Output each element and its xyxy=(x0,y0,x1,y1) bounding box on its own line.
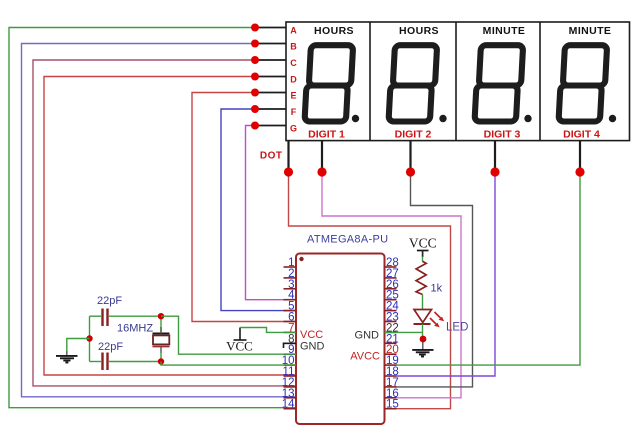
node B junction xyxy=(251,40,259,48)
svg-text:LED: LED xyxy=(446,322,468,334)
node DIG2 junction xyxy=(406,167,415,176)
display DS3 DIGIT 3 xyxy=(475,25,532,141)
wire net DIG1 (pink) to pin 16 xyxy=(322,141,461,398)
U1 right pin numbers xyxy=(386,257,399,411)
svg-text:14: 14 xyxy=(282,399,295,411)
node F junction xyxy=(251,105,259,113)
power VCC symbol near pin 7 xyxy=(234,328,247,341)
wire net F (blue) to pin 5 xyxy=(221,109,296,311)
svg-text:HOURS: HOURS xyxy=(399,25,439,37)
svg-text:MINUTE: MINUTE xyxy=(569,25,612,37)
svg-text:C: C xyxy=(290,58,297,68)
svg-text:ATMEGA8A-PU: ATMEGA8A-PU xyxy=(307,234,388,246)
U1 left pin stubs 1-14 xyxy=(284,267,297,409)
node crystal bottom junction xyxy=(158,358,164,364)
wire crystal top to pin 9 (green) xyxy=(161,316,296,354)
node E junction xyxy=(251,89,259,97)
svg-text:G: G xyxy=(290,124,297,134)
svg-text:E: E xyxy=(290,91,296,101)
LED D1 xyxy=(414,310,432,325)
svg-text:DIGIT 4: DIGIT 4 xyxy=(563,129,600,141)
node DIG1 junction xyxy=(317,167,326,176)
svg-text:HOURS: HOURS xyxy=(314,25,354,37)
wire net DIG4 (green) to pin 19 xyxy=(397,141,581,366)
svg-text:15: 15 xyxy=(386,399,399,411)
wire pin 22 to LED ground (green) xyxy=(385,331,423,333)
power VCC above resistor xyxy=(409,235,437,250)
capacitor C2 22pF (bottom) xyxy=(90,341,162,370)
node cap bus junction xyxy=(86,335,92,341)
svg-text:22pF: 22pF xyxy=(98,341,123,353)
svg-text:GND: GND xyxy=(355,329,380,341)
wire net E (red) to pin 6 xyxy=(192,93,296,322)
wire net B (violet) to pin 13 xyxy=(22,44,297,397)
segment labels A-G xyxy=(290,26,297,134)
wire net DIG3 (violet) to pin 18 xyxy=(397,141,496,376)
svg-text:B: B xyxy=(290,42,297,52)
wire net G (magenta) to pin 4 xyxy=(246,126,297,300)
node D junction xyxy=(251,73,259,81)
display DS2 DIGIT 2 xyxy=(389,25,447,141)
svg-text:D: D xyxy=(290,75,297,85)
wire caps left bus (green) xyxy=(89,316,91,361)
svg-text:VCC: VCC xyxy=(226,339,253,354)
svg-text:VCC: VCC xyxy=(300,329,323,341)
U1 left pin numbers xyxy=(282,257,295,411)
wire net D (red) to pin 11 xyxy=(44,77,296,376)
crystal X1 16MHZ xyxy=(117,316,170,361)
svg-text:DOT: DOT xyxy=(260,151,283,162)
wire VCC stub (green) xyxy=(422,251,424,258)
op IC U1 ATMEGA8A-PU body xyxy=(296,234,388,425)
display DS1 DIGIT 1 xyxy=(305,25,360,141)
svg-text:DIGIT 2: DIGIT 2 xyxy=(395,129,432,141)
ground GND1 (crystal) xyxy=(56,356,78,363)
ground GND2 (LED) xyxy=(412,350,433,357)
node crystal top junction xyxy=(158,313,164,319)
display DS4 DIGIT 4 xyxy=(559,25,617,141)
wire net C (maroon) to pin 12 xyxy=(33,60,296,386)
capacitor C1 22pF (top) xyxy=(90,295,162,326)
node DOT junction xyxy=(284,167,293,176)
LED arrows xyxy=(430,312,444,327)
wire to ground (green) xyxy=(67,339,90,352)
svg-text:DIGIT 3: DIGIT 3 xyxy=(484,129,521,141)
resistor R1 1k xyxy=(416,261,426,294)
U1 right pin stubs 28-15 xyxy=(385,267,397,409)
node LED ground junction xyxy=(420,336,427,343)
svg-text:F: F xyxy=(291,107,297,117)
node DIG3 junction xyxy=(490,167,499,176)
wire resistor to LED (green) xyxy=(422,295,424,310)
wire net A (green) to pin 14 xyxy=(9,28,296,408)
svg-text:DIGIT 1: DIGIT 1 xyxy=(308,129,345,141)
display panel outline xyxy=(286,22,630,141)
wire net DIG2 (gray) to pin 17 xyxy=(397,141,473,387)
wire net DOT (red) to pin 15 xyxy=(289,141,451,409)
node G junction xyxy=(251,122,259,130)
svg-text:AVCC: AVCC xyxy=(350,351,380,363)
node A junction xyxy=(251,24,259,32)
svg-text:GND: GND xyxy=(300,340,325,352)
svg-text:16MHZ: 16MHZ xyxy=(117,323,153,335)
svg-text:VCC: VCC xyxy=(409,235,437,250)
wire VCC to pin 7 (green) xyxy=(240,328,296,333)
wire crystal bottom to pin 10 (green) xyxy=(161,362,296,366)
pin 8 GND tick xyxy=(284,343,297,348)
svg-text:22pF: 22pF xyxy=(97,295,122,307)
svg-text:A: A xyxy=(290,26,297,36)
svg-text:1k: 1k xyxy=(431,283,443,295)
node DIG4 junction xyxy=(575,167,584,176)
svg-text:MINUTE: MINUTE xyxy=(483,25,526,37)
node C junction xyxy=(251,56,259,64)
wire LED cathode to ground (green) xyxy=(422,324,424,340)
